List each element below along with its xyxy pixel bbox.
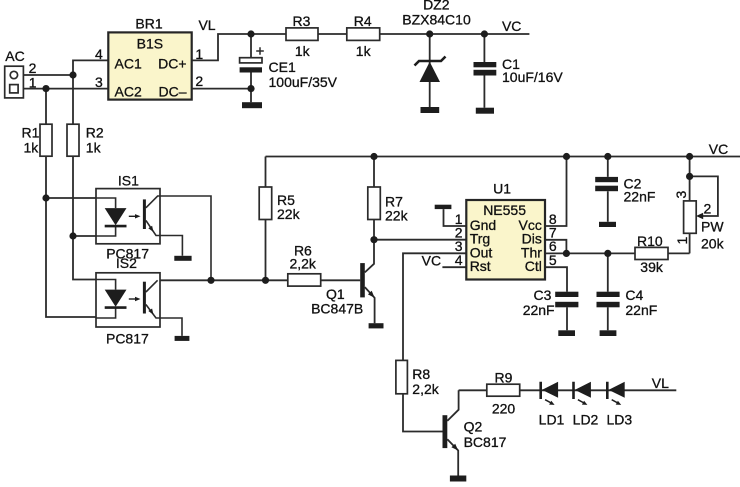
svg-text:AC2: AC2 (115, 83, 142, 99)
svg-text:1k: 1k (24, 140, 40, 156)
svg-text:1k: 1k (295, 43, 311, 59)
svg-text:C3: C3 (534, 287, 552, 303)
svg-text:1: 1 (674, 237, 690, 245)
svg-text:LD3: LD3 (606, 411, 632, 427)
svg-text:39k: 39k (640, 259, 664, 275)
svg-text:1: 1 (195, 46, 203, 62)
svg-text:22nF: 22nF (624, 188, 656, 204)
svg-text:10uF/16V: 10uF/16V (502, 69, 563, 85)
svg-text:5: 5 (549, 252, 557, 268)
svg-text:AC1: AC1 (115, 56, 142, 72)
svg-text:U1: U1 (493, 181, 511, 197)
svg-text:AC: AC (5, 48, 24, 64)
svg-text:VL: VL (198, 17, 215, 33)
svg-text:1k: 1k (356, 43, 372, 59)
svg-text:4: 4 (95, 46, 103, 62)
svg-text:CE1: CE1 (269, 59, 296, 75)
svg-text:Q1: Q1 (326, 286, 345, 302)
svg-text:DC+: DC+ (158, 56, 186, 72)
svg-text:2: 2 (704, 200, 712, 216)
svg-text:3: 3 (673, 191, 689, 199)
svg-text:220: 220 (492, 400, 516, 416)
svg-text:B1S: B1S (137, 35, 163, 51)
svg-text:PC817: PC817 (106, 330, 149, 346)
svg-text:R3: R3 (293, 13, 311, 29)
svg-text:1: 1 (29, 74, 37, 90)
svg-text:22k: 22k (385, 208, 409, 224)
svg-text:22nF: 22nF (523, 302, 555, 318)
svg-text:R10: R10 (637, 233, 663, 249)
svg-text:22k: 22k (277, 206, 301, 222)
svg-text:Rst: Rst (470, 258, 491, 274)
svg-text:BR1: BR1 (135, 15, 162, 31)
svg-text:2: 2 (195, 73, 203, 89)
svg-text:BC847B: BC847B (311, 301, 363, 317)
svg-text:BC817: BC817 (464, 434, 507, 450)
svg-text:BZX84C10: BZX84C10 (402, 12, 471, 28)
svg-text:LD2: LD2 (573, 411, 599, 427)
svg-text:NE555: NE555 (483, 202, 526, 218)
svg-text:100uF/35V: 100uF/35V (269, 74, 338, 90)
svg-text:LD1: LD1 (539, 411, 565, 427)
svg-text:R8: R8 (412, 366, 430, 382)
svg-text:VC: VC (709, 141, 728, 157)
svg-text:VL: VL (652, 375, 669, 391)
svg-text:R9: R9 (495, 369, 513, 385)
svg-text:4: 4 (455, 252, 463, 268)
svg-text:20k: 20k (701, 235, 725, 251)
svg-text:IS1: IS1 (118, 172, 139, 188)
svg-text:R1: R1 (21, 125, 39, 141)
svg-text:C4: C4 (625, 287, 643, 303)
svg-text:3: 3 (95, 74, 103, 90)
svg-text:IS2: IS2 (116, 255, 137, 271)
svg-text:DC–: DC– (158, 83, 186, 99)
svg-text:2,2k: 2,2k (289, 256, 316, 272)
svg-text:Ctl: Ctl (525, 258, 542, 274)
svg-text:VC: VC (422, 253, 441, 269)
svg-text:1k: 1k (86, 140, 102, 156)
svg-text:PW: PW (701, 218, 724, 234)
svg-text:22nF: 22nF (625, 302, 657, 318)
svg-text:Q2: Q2 (464, 419, 483, 435)
svg-text:2,2k: 2,2k (412, 381, 439, 397)
svg-text:R2: R2 (86, 125, 104, 141)
svg-text:VC: VC (502, 18, 521, 34)
svg-text:R4: R4 (354, 13, 372, 29)
